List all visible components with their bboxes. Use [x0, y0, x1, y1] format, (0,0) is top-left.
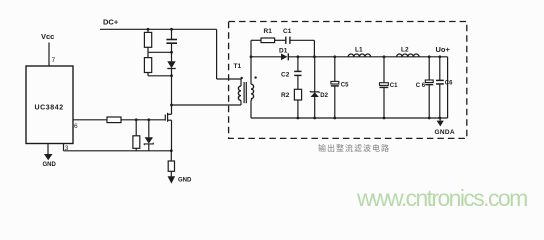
node R2 bottom — [297, 117, 300, 120]
svg-text:输出整流滤波电路: 输出整流滤波电路 — [318, 143, 390, 153]
svg-text:C 6: C 6 — [416, 83, 426, 89]
resistor R2 — [294, 89, 301, 118]
svg-text:www.cntronics.com: www.cntronics.com — [356, 185, 527, 211]
capacitor C1 snubber — [286, 37, 315, 57]
node D1 anode — [250, 55, 253, 58]
svg-text:R2: R2 — [281, 92, 290, 99]
svg-text:Uo+: Uo+ — [436, 45, 451, 54]
wire output right drop — [447, 57, 449, 118]
wire clamp mid node — [148, 51, 172, 53]
wire pin6 — [73, 119, 107, 121]
svg-text:C2: C2 — [281, 72, 290, 79]
op-amp U1 UC3842 controller box — [26, 66, 73, 144]
node clamp bottom — [170, 74, 173, 77]
node drain junction — [170, 104, 173, 107]
resistor sense (vertical) — [168, 151, 174, 177]
wire DC+ rail — [100, 28, 217, 30]
node clamp R top — [147, 28, 150, 31]
node C6a top — [428, 55, 431, 58]
node C5 bottom — [333, 117, 336, 120]
svg-text:GND: GND — [178, 178, 192, 184]
transformer T1 core — [244, 82, 246, 103]
node C3 bottom — [383, 117, 386, 120]
svg-text:L1: L1 — [355, 47, 363, 54]
node snubber return — [313, 55, 316, 58]
ground (sense) — [168, 176, 192, 183]
capacitor C6b — [436, 57, 444, 118]
transformer T1 secondary winding — [251, 84, 254, 100]
resistor R1 — [251, 38, 285, 43]
svg-text:Vcc: Vcc — [41, 32, 54, 41]
resistor clamp upper (vertical) — [144, 29, 151, 52]
wire clamp bottom node — [148, 75, 172, 77]
node phase dot secondary — [254, 76, 256, 78]
svg-text:6: 6 — [74, 123, 78, 130]
node phase dot primary — [241, 77, 243, 79]
svg-text:C5: C5 — [341, 83, 349, 89]
capacitor C5 — [331, 57, 339, 118]
capacitor C2 — [294, 57, 301, 90]
zener diode D2 — [310, 57, 320, 118]
svg-text:GNDA: GNDA — [435, 129, 455, 136]
node C6b top — [438, 55, 441, 58]
ground (under U1) — [43, 144, 57, 169]
svg-text:D1: D1 — [279, 47, 288, 54]
svg-text:7: 7 — [52, 57, 56, 64]
diode D1 — [251, 53, 448, 60]
node C6b bottom — [438, 117, 441, 120]
svg-text:C1: C1 — [390, 83, 398, 89]
zener diode gate clamp — [144, 120, 153, 151]
wire drain rail — [172, 104, 242, 106]
resistor R gate (horizontal) — [107, 117, 121, 123]
inductor L1 — [348, 54, 370, 57]
wire secondary bottom lead — [250, 100, 252, 118]
wire pin3 to source node — [64, 144, 172, 151]
diode clamp — [167, 52, 175, 76]
node gate-D junction — [147, 118, 150, 121]
resistor R gate-source (vertical) — [133, 120, 140, 151]
capacitor clamp — [166, 29, 177, 52]
svg-text:C1: C1 — [283, 28, 292, 35]
wire DC+ to primary top — [217, 29, 241, 86]
svg-text:L2: L2 — [401, 47, 409, 54]
svg-text:GND: GND — [43, 162, 57, 168]
wire gate — [121, 119, 165, 121]
svg-text:R1: R1 — [264, 28, 273, 35]
capacitor C6a — [425, 57, 433, 118]
node clamp C top — [170, 28, 173, 31]
transformer T1 primary winding — [238, 86, 241, 105]
capacitor C3 — [380, 57, 389, 118]
svg-text:D2: D2 — [320, 93, 328, 99]
inductor L2 — [397, 54, 419, 57]
wire clamp to drain — [171, 76, 173, 115]
wire output bottom rail — [251, 117, 448, 119]
node C2 top — [297, 55, 300, 58]
node C5 top — [333, 55, 336, 58]
node C3 top — [383, 55, 386, 58]
dashed output section box — [229, 22, 467, 139]
svg-text:DC+: DC+ — [103, 18, 119, 27]
node clamp mid — [170, 51, 173, 54]
transistor Q1 MOSFET — [165, 113, 171, 151]
wire secondary top lead — [250, 40, 252, 84]
node Vcc — [41, 32, 54, 66]
svg-text:C6: C6 — [445, 81, 453, 87]
node gate-R junction — [135, 118, 138, 121]
node C6a bottom — [428, 117, 431, 120]
resistor clamp lower (vertical) — [144, 52, 151, 76]
svg-text:UC3842: UC3842 — [35, 105, 64, 112]
svg-text:T1: T1 — [234, 63, 242, 70]
ground GNDA — [435, 118, 455, 136]
node source junction — [170, 149, 173, 152]
node D2 bottom — [313, 117, 316, 120]
